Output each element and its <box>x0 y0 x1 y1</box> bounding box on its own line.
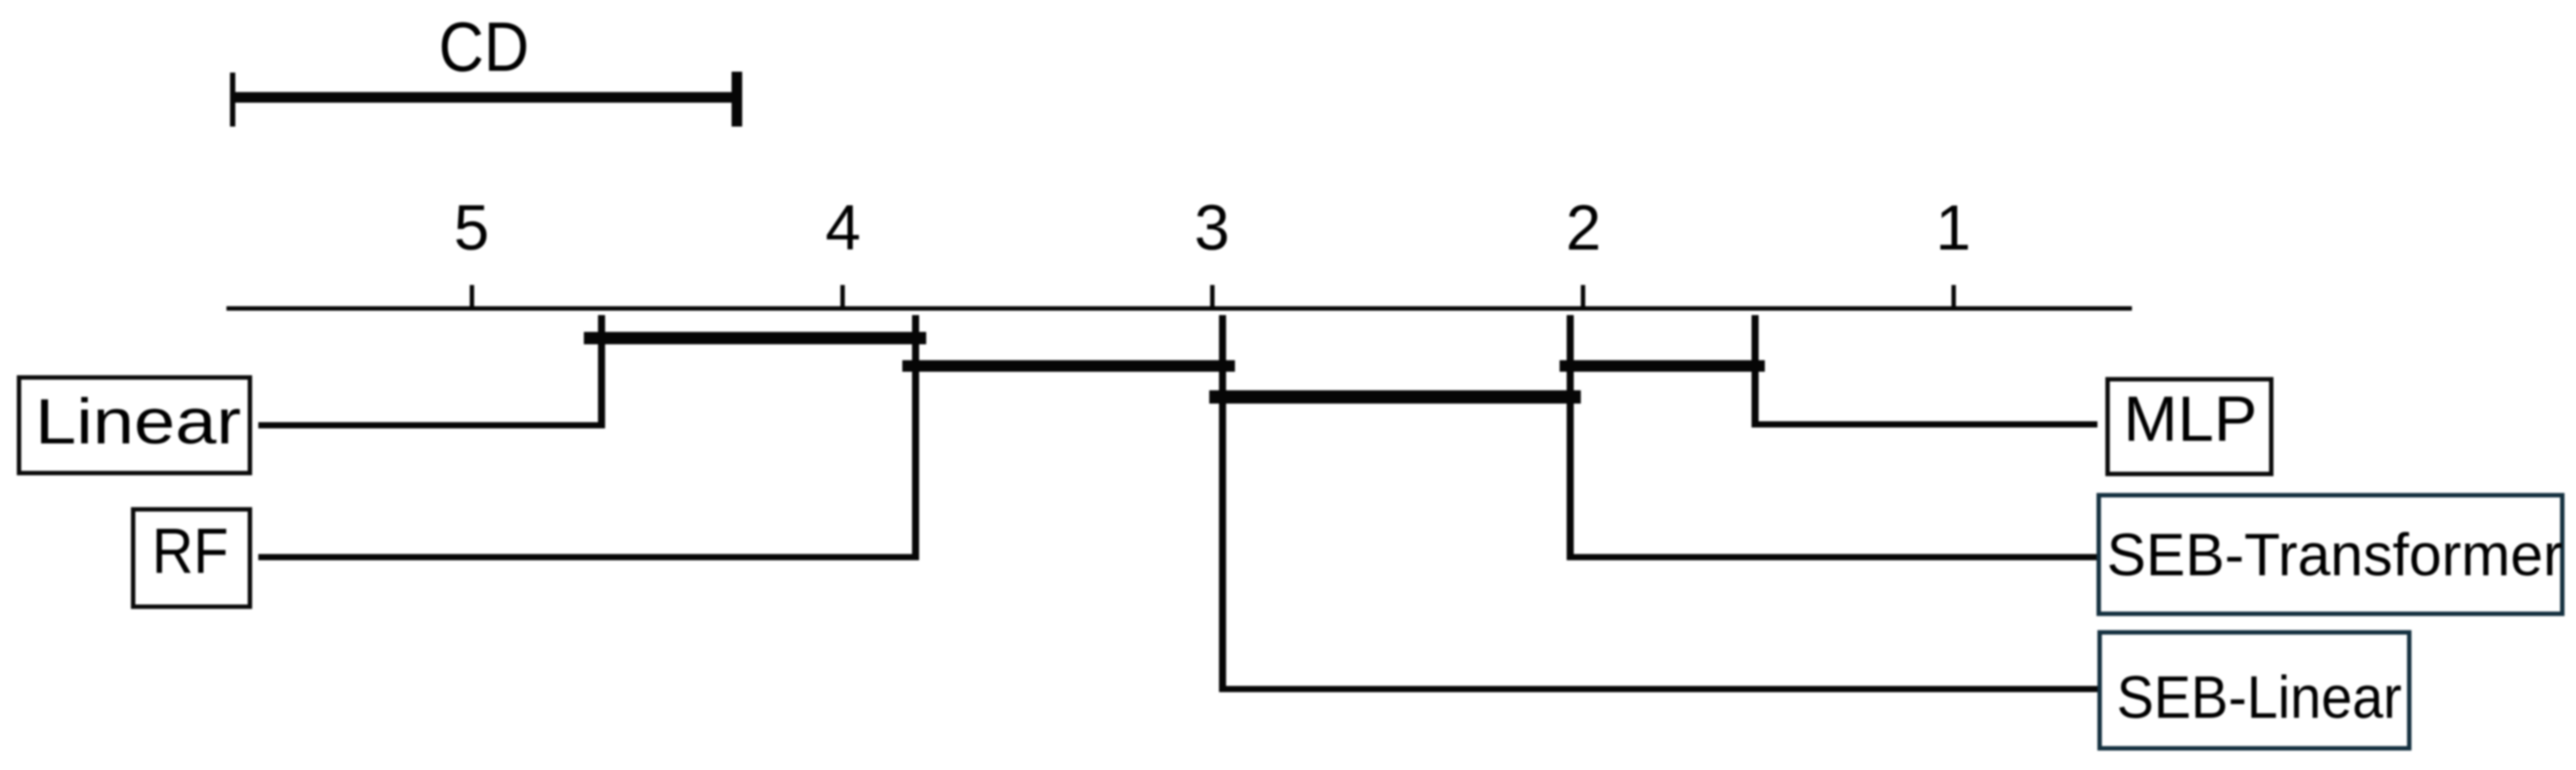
rank line RF vertical <box>912 315 919 560</box>
axis label 1 <box>1900 196 2006 260</box>
clique bar RF-SEB-Linear <box>902 360 1235 372</box>
label box RF <box>131 507 252 609</box>
rank line MLP vertical <box>1752 315 1759 427</box>
axis tick 2 <box>1581 285 1585 310</box>
axis tick 3 <box>1210 285 1215 310</box>
CD interval bar <box>232 92 737 103</box>
rank line SEB-Transformer horizontal <box>1567 554 2097 560</box>
axis tick 1 <box>1951 285 1956 310</box>
rank axis <box>226 306 2132 311</box>
clique bar SEB-Transformer-MLP <box>1560 360 1765 372</box>
rank line Linear vertical <box>598 315 605 428</box>
axis label 5 <box>418 196 525 260</box>
rank line RF horizontal <box>258 554 919 560</box>
rank line SEB-Linear horizontal <box>1219 686 2097 692</box>
axis tick 4 <box>840 285 845 310</box>
clique bar SEB-Linear-SEB-Transformer <box>1209 390 1581 404</box>
axis label 2 <box>1530 196 1637 260</box>
rank line MLP horizontal <box>1752 421 2097 427</box>
label box SEB-Linear <box>2097 630 2411 751</box>
CD bar left cap <box>230 73 235 127</box>
label box Linear <box>17 375 252 475</box>
axis label 3 <box>1159 196 1265 260</box>
rank line Linear horizontal <box>258 422 605 428</box>
rank line SEB-Linear vertical <box>1219 315 1226 692</box>
CD label <box>413 18 555 88</box>
rank line SEB-Transformer vertical <box>1567 315 1574 560</box>
label box SEB-Transformer <box>2097 493 2564 616</box>
label box MLP <box>2105 377 2273 476</box>
axis tick 5 <box>470 285 474 310</box>
axis label 4 <box>790 196 896 260</box>
CD bar right cap <box>732 72 742 127</box>
clique bar Linear-RF <box>584 332 926 344</box>
